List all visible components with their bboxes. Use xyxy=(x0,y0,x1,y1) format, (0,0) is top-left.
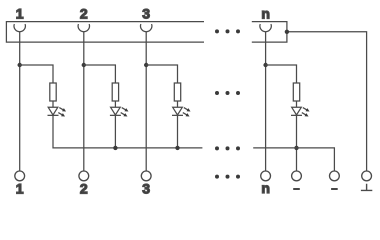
svg-text:n: n xyxy=(261,6,270,22)
svg-text:1: 1 xyxy=(16,6,24,22)
svg-text:2: 2 xyxy=(80,6,88,22)
svg-text:1: 1 xyxy=(16,180,24,196)
svg-text:3: 3 xyxy=(142,180,150,196)
svg-text:3: 3 xyxy=(142,6,150,22)
svg-text:n: n xyxy=(261,180,270,196)
svg-text:2: 2 xyxy=(80,180,88,196)
